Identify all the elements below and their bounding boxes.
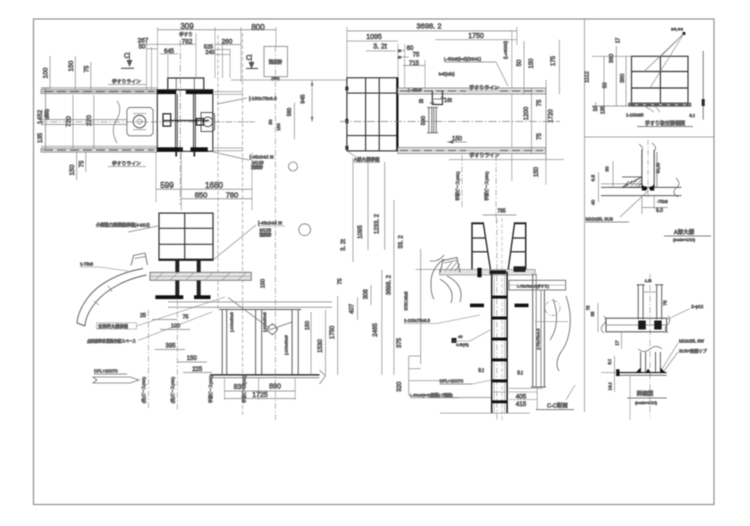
svg-text:150: 150: [261, 279, 267, 288]
svg-text:1.5t: 1.5t: [645, 278, 653, 283]
svg-text:75: 75: [80, 160, 86, 167]
svg-text:温度計: 温度計: [260, 231, 272, 237]
svg-text:60: 60: [407, 46, 414, 52]
svg-text:1452: 1452: [37, 109, 44, 124]
svg-text:395: 395: [165, 344, 176, 350]
svg-text:M10x25L SW: M10x25L SW: [679, 339, 704, 344]
svg-text:1750: 1750: [330, 325, 336, 339]
svg-text:1680: 1680: [205, 181, 223, 190]
svg-text:6.5: 6.5: [591, 174, 597, 181]
svg-text:240: 240: [205, 50, 214, 56]
svg-text:50: 50: [517, 59, 523, 66]
svg-text:33. 2: 33. 2: [399, 235, 405, 249]
svg-text:75: 75: [413, 53, 420, 59]
svg-text:C-C断面: C-C断面: [547, 402, 568, 410]
svg-text:75: 75: [182, 315, 188, 321]
svg-text:手すり取付要領図: 手すり取付要領図: [645, 120, 685, 127]
svg-text:150: 150: [529, 58, 535, 69]
svg-text:175: 175: [551, 55, 557, 66]
svg-text:375C45x5: 375C45x5: [403, 291, 408, 311]
svg-text:17: 17: [614, 340, 620, 346]
svg-text:25: 25: [140, 313, 146, 319]
svg-text:270: 270: [86, 115, 93, 126]
svg-text:135: 135: [38, 132, 44, 143]
svg-text:415: 415: [516, 401, 527, 408]
svg-text:手すりライン: 手すりライン: [469, 84, 499, 91]
svg-text:1095: 1095: [358, 225, 364, 239]
svg-text:M10x25L SUS: M10x25L SUS: [586, 217, 614, 222]
svg-text:320: 320: [397, 381, 403, 392]
svg-text:30: 30: [605, 166, 611, 172]
svg-text:6t: 6t: [419, 99, 424, 105]
svg-text:[-75x75x4.5: [-75x75x4.5: [536, 328, 541, 350]
svg-text:1233. 2: 1233. 2: [375, 213, 381, 234]
svg-text:1-130x65: 1-130x65: [626, 113, 644, 118]
svg-text:40: 40: [591, 200, 597, 206]
svg-text:50,35: 50,35: [656, 162, 661, 173]
svg-text:6.t: 6.t: [607, 359, 613, 365]
svg-text:L-50x6(t=6)鋼蓋(-7面図): L-50x6(t=6)鋼蓋(-7面図): [410, 391, 453, 397]
svg-text:詳細図: 詳細図: [637, 390, 654, 398]
svg-text:手摺ピース(431): 手摺ピース(431): [208, 374, 213, 402]
svg-text:75: 75: [338, 278, 344, 284]
svg-text:267: 267: [138, 38, 149, 45]
svg-text:手摺ピース(431): 手摺ピース(431): [483, 171, 489, 201]
svg-text:260: 260: [222, 39, 233, 46]
svg-text:308: 308: [363, 289, 369, 300]
svg-text:6.0: 6.0: [656, 208, 663, 214]
svg-text:9.t: 9.t: [478, 368, 484, 374]
svg-text:(L=6000): (L=6000): [503, 40, 508, 59]
svg-text:782: 782: [182, 39, 193, 46]
svg-text:1720: 1720: [549, 109, 555, 123]
svg-text:3698. 2: 3698. 2: [387, 274, 393, 295]
svg-text:380: 380: [620, 74, 626, 83]
svg-text:1112: 1112: [585, 71, 591, 82]
svg-text:4.5t(6t): 4.5t(6t): [456, 342, 469, 347]
svg-text:75: 75: [663, 300, 669, 306]
svg-text:(scale=1/10): (scale=1/10): [673, 237, 696, 242]
svg-text:1200: 1200: [524, 106, 530, 120]
svg-text:SUS+鋼蓋リブ: SUS+鋼蓋リブ: [679, 348, 708, 355]
svg-text:(吊)ピース(431): (吊)ピース(431): [141, 376, 146, 403]
svg-text:C: C: [246, 55, 251, 62]
svg-text:150: 150: [452, 137, 463, 143]
svg-text:309: 309: [180, 22, 194, 31]
svg-text:3Φ,Φ6: 3Φ,Φ6: [671, 27, 684, 32]
svg-text:手すりライン: 手すりライン: [470, 152, 500, 159]
svg-text:(墨出): (墨出): [44, 108, 49, 119]
svg-text:手摺ピース(431): 手摺ピース(431): [454, 171, 460, 201]
svg-text:360: 360: [609, 54, 615, 63]
svg-text:3698. 2: 3698. 2: [416, 22, 441, 31]
svg-text:(吊)ピース(431): (吊)ピース(431): [170, 376, 175, 403]
svg-text:10: 10: [593, 106, 599, 112]
svg-text:L-45x6: L-45x6: [408, 88, 422, 93]
svg-text:46: 46: [458, 334, 463, 339]
svg-text:3. 2t: 3. 2t: [373, 44, 387, 51]
svg-text:35: 35: [590, 311, 595, 317]
svg-text:1530: 1530: [318, 339, 324, 353]
svg-text:835: 835: [234, 384, 246, 391]
svg-text:17: 17: [616, 38, 622, 44]
svg-text:1-130x75x6.5: 1-130x75x6.5: [404, 318, 431, 323]
svg-text:2465: 2465: [373, 323, 379, 337]
svg-text:150: 150: [187, 356, 198, 362]
svg-text:C: C: [124, 53, 129, 60]
svg-text:100: 100: [171, 324, 180, 330]
svg-text:L-75x75x6.5(手すり): L-75x75x6.5(手すり): [517, 284, 549, 289]
svg-text:6.t: 6.t: [689, 113, 695, 119]
svg-text:1095: 1095: [366, 34, 382, 41]
svg-text:t=5(min): t=5(min): [439, 72, 455, 77]
svg-text:[-150x75x6.5: [-150x75x6.5: [249, 96, 277, 102]
svg-text:720: 720: [66, 116, 73, 127]
svg-text:手すりライン: 手すりライン: [112, 160, 141, 167]
svg-text:375: 375: [397, 337, 403, 348]
svg-text:150: 150: [68, 60, 75, 71]
svg-text:599: 599: [160, 181, 174, 190]
svg-text:890: 890: [269, 383, 281, 390]
svg-text:150: 150: [534, 166, 540, 177]
svg-text:16t: 16t: [444, 98, 452, 104]
svg-text:785: 785: [497, 209, 506, 215]
svg-text:100: 100: [43, 67, 50, 78]
svg-text:[-100x50x5: [-100x50x5: [262, 311, 267, 332]
svg-text:-75x6: -75x6: [657, 199, 668, 204]
svg-text:150: 150: [276, 123, 281, 131]
svg-text:[-45x34d 3t: [-45x34d 3t: [258, 221, 283, 227]
svg-text:手すりライン: 手すりライン: [112, 78, 141, 85]
svg-text:150: 150: [69, 164, 76, 175]
svg-text:560: 560: [287, 108, 293, 117]
svg-text:9.t: 9.t: [517, 371, 523, 377]
svg-text:225: 225: [192, 367, 203, 373]
svg-text:780: 780: [226, 191, 239, 200]
svg-text:DFL+20070: DFL+20070: [440, 379, 464, 384]
svg-text:715: 715: [409, 61, 420, 67]
svg-text:75: 75: [85, 65, 91, 72]
svg-text:L-50x6(t=6)(SS41): L-50x6(t=6)(SS41): [444, 57, 482, 62]
svg-text:407: 407: [350, 303, 356, 314]
svg-text:A部大様参照: A部大様参照: [354, 156, 380, 163]
svg-text:75: 75: [586, 305, 591, 311]
svg-text:手すり: 手すり: [179, 31, 193, 38]
svg-text:1-75x6: 1-75x6: [80, 262, 94, 267]
svg-text:50: 50: [603, 82, 609, 88]
svg-text:50: 50: [268, 119, 273, 125]
svg-text:1750: 1750: [468, 33, 484, 40]
svg-text:点検標準位置操作盤スペース: 点検標準位置操作盤スペース: [87, 339, 136, 344]
svg-text:800: 800: [251, 23, 265, 32]
svg-text:DFL+20070: DFL+20070: [94, 369, 118, 374]
svg-text:16.t: 16.t: [608, 382, 614, 391]
svg-text:590: 590: [421, 116, 427, 125]
svg-text:温度計: 温度計: [269, 59, 283, 66]
svg-text:75: 75: [537, 99, 543, 106]
svg-text:850: 850: [195, 191, 208, 200]
svg-text:75: 75: [537, 133, 543, 140]
svg-text:945: 945: [301, 94, 307, 103]
svg-text:[-100x50x5: [-100x50x5: [284, 334, 289, 355]
svg-text:温度計: 温度計: [251, 164, 263, 170]
svg-text:2-φ12: 2-φ12: [691, 304, 703, 309]
svg-text:1725: 1725: [252, 392, 268, 399]
svg-text:3. 2t: 3. 2t: [341, 239, 347, 251]
svg-text:645: 645: [164, 49, 175, 55]
svg-text:[-100x50x5: [-100x50x5: [229, 311, 234, 332]
svg-text:50: 50: [139, 45, 146, 51]
svg-text:A部大様: A部大様: [674, 228, 695, 236]
svg-text:135: 135: [601, 106, 607, 115]
svg-text:150: 150: [305, 321, 311, 330]
svg-text:小型動力要細図参照(4-M12): 小型動力要細図参照(4-M12): [96, 222, 150, 229]
svg-text:(scale=1/10): (scale=1/10): [635, 400, 658, 405]
